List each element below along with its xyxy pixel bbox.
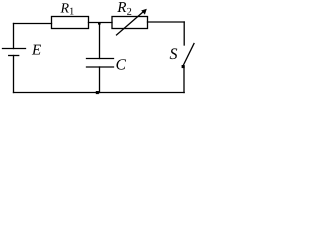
switch S lever [183,44,194,67]
switch S hinge dot [182,65,185,68]
node A junction dot (top) [98,22,101,25]
wire bottom segment [14,92,185,94]
wire top-right segment [148,21,185,23]
wire top-left segment [14,23,52,25]
wire right upper (to switch top contact) [183,22,185,45]
wire right lower (from switch hinge to bottom) [183,67,185,93]
wire left upper (top corner to battery) [13,24,15,49]
label R1 'R' [60,3,68,12]
battery E long plate [3,48,26,50]
label R2 'R' [117,2,126,12]
rheostat R2 arrowhead [141,9,147,15]
wire left lower (battery to bottom corner) [13,56,15,93]
label R2 subscript 2 [127,8,131,15]
rheostat R2 arrow shaft [117,11,145,35]
wire capacitor branch lower [99,67,101,93]
label E [32,45,41,55]
battery E short plate [9,55,19,57]
rheostat R2 [112,17,148,29]
label C [116,59,126,69]
capacitor C top plate [87,58,114,60]
wire capacitor branch upper [99,23,101,59]
label R1 subscript 1 [70,8,74,15]
node B junction dot (bottom) [96,91,99,94]
wire between R1 and node A [89,22,113,24]
resistor R1 [52,17,89,29]
label S [170,48,178,59]
capacitor C bottom plate [87,66,114,68]
